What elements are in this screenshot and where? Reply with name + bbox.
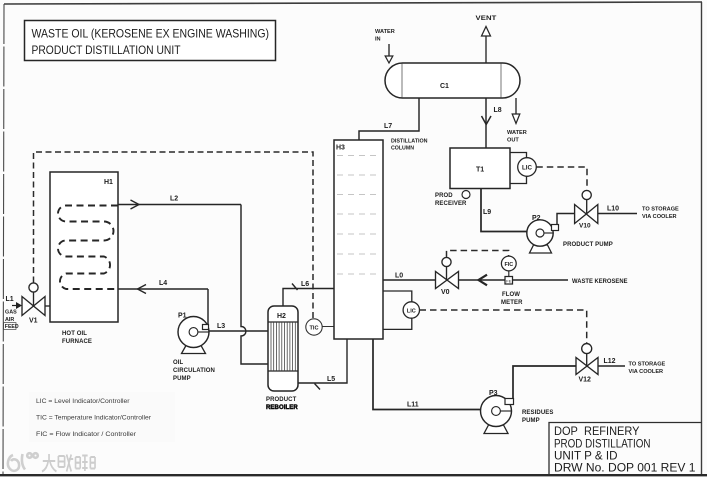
svg-text:OUT: OUT	[507, 138, 519, 144]
instrument FIC	[501, 256, 516, 276]
dashed LIC to V10	[536, 167, 587, 190]
valve V0 with actuator	[436, 257, 459, 288]
water out	[507, 98, 527, 144]
svg-text:V12: V12	[579, 377, 592, 384]
svg-text:GAS: GAS	[5, 310, 17, 316]
svg-text:LIC: LIC	[407, 308, 416, 314]
svg-text:RESIDUES: RESIDUES	[522, 410, 553, 416]
svg-text:TO STORAGE: TO STORAGE	[642, 207, 679, 213]
svg-text:L10: L10	[607, 206, 619, 213]
title block	[549, 423, 702, 476]
svg-text:L4: L4	[159, 280, 167, 287]
svg-text:L12: L12	[604, 358, 616, 365]
svg-text:FIC: FIC	[504, 262, 513, 268]
svg-text:FIC = Flow Indicator / Control: FIC = Flow Indicator / Controller	[36, 431, 137, 438]
svg-text:WASTE KEROSENE: WASTE KEROSENE	[572, 278, 628, 285]
svg-text:L11: L11	[407, 402, 419, 409]
svg-text:V10: V10	[579, 223, 591, 230]
line L6	[283, 284, 334, 307]
dashed control loop TIC to V1	[34, 152, 314, 319]
line L4	[118, 285, 208, 325]
line L10	[598, 213, 637, 215]
label product reboiler	[266, 397, 298, 411]
svg-text:L6: L6	[301, 281, 309, 288]
label prod receiver	[435, 191, 470, 208]
svg-text:VIA COOLER: VIA COOLER	[629, 369, 664, 375]
svg-text:AIR: AIR	[5, 317, 14, 323]
svg-text:L0: L0	[395, 273, 403, 280]
svg-text:PRODUCT: PRODUCT	[266, 397, 297, 403]
reboiler H2	[268, 306, 298, 391]
svg-text:P2: P2	[532, 215, 541, 222]
line L3	[209, 330, 268, 332]
svg-text:RECEIVER: RECEIVER	[435, 201, 467, 207]
instrument TIC	[306, 319, 334, 335]
dashed LIC to V12	[420, 310, 587, 343]
svg-text:METER: METER	[501, 300, 523, 306]
valve V1	[22, 283, 50, 316]
water in	[375, 29, 395, 63]
svg-text:L3: L3	[217, 323, 225, 330]
furnace H1	[50, 172, 118, 322]
svg-text:WATER: WATER	[507, 130, 527, 136]
svg-text:PRODUCT PUMP: PRODUCT PUMP	[563, 242, 613, 248]
svg-text:T1: T1	[476, 167, 484, 174]
svg-text:FLOW: FLOW	[502, 292, 520, 298]
vent	[476, 16, 497, 63]
valve V12 with actuator	[576, 344, 598, 375]
label oil circulation pump	[173, 360, 215, 382]
svg-text:REBOILER: REBOILER	[266, 405, 298, 411]
svg-text:CIRCULATION: CIRCULATION	[173, 368, 215, 374]
line L8	[482, 98, 492, 148]
legend background	[29, 392, 175, 442]
svg-text:H1: H1	[104, 179, 113, 186]
residue discharge line	[513, 366, 576, 399]
svg-text:L8: L8	[494, 107, 502, 114]
svg-text:COLUMN: COLUMN	[391, 146, 414, 152]
watermark	[8, 453, 38, 471]
svg-text:PRODUCT DISTILLATION UNIT: PRODUCT DISTILLATION UNIT	[32, 43, 181, 57]
svg-text:HOT OIL: HOT OIL	[62, 331, 87, 337]
line L0 waste kerosene feed	[383, 275, 568, 286]
svg-text:VENT: VENT	[476, 16, 497, 22]
svg-text:L2: L2	[170, 196, 178, 203]
svg-text:C1: C1	[440, 83, 449, 90]
svg-text:WATER: WATER	[375, 29, 395, 35]
line L11	[373, 339, 481, 410]
svg-text:FE: FE	[506, 279, 511, 284]
svg-text:LIC = Level Indicator/Controll: LIC = Level Indicator/Controller	[36, 398, 130, 405]
flow meter	[501, 277, 523, 307]
svg-text:L5: L5	[327, 376, 335, 383]
svg-text:P3: P3	[489, 390, 498, 397]
line L9	[481, 189, 527, 232]
svg-text:L9: L9	[483, 209, 491, 216]
svg-text:H2: H2	[277, 313, 286, 320]
furnace coil	[58, 206, 118, 290]
condenser C1	[385, 63, 520, 98]
title box	[25, 21, 276, 61]
svg-text:TIC: TIC	[309, 325, 318, 331]
dashed FIC to V0	[447, 251, 509, 258]
line L5	[298, 339, 347, 390]
pump P3	[481, 396, 514, 434]
svg-text:FURNACE: FURNACE	[62, 339, 92, 345]
label hot oil furnace	[62, 331, 92, 345]
line L12	[598, 365, 625, 367]
label to storage via cooler (bottom)	[629, 362, 666, 376]
svg-text:TO STORAGE: TO STORAGE	[629, 362, 666, 368]
label distillation column	[391, 139, 428, 152]
svg-text:PUMP: PUMP	[522, 418, 540, 424]
pump P1	[178, 317, 209, 354]
feed arrow L1	[4, 296, 38, 330]
svg-text:WASTE OIL (KEROSENE EX ENGINE: WASTE OIL (KEROSENE EX ENGINE WASHING)	[32, 27, 270, 41]
instrument LIC on T1	[510, 153, 536, 184]
svg-text:TIC = Temperature Indicator/Co: TIC = Temperature Indicator/Controller	[36, 415, 152, 422]
svg-text:PROD: PROD	[435, 193, 453, 199]
svg-text:L1: L1	[6, 296, 14, 303]
label to storage via cooler (top)	[642, 207, 679, 221]
svg-text:H3: H3	[336, 145, 345, 152]
line L2	[118, 200, 268, 364]
svg-text:IN: IN	[375, 37, 381, 43]
svg-text:PUMP: PUMP	[173, 376, 191, 382]
receiver T1	[450, 148, 510, 189]
svg-text:V1: V1	[29, 318, 38, 325]
svg-text:DRW No. DOP 001 REV 1: DRW No. DOP 001 REV 1	[554, 461, 696, 475]
instrument LIC on column	[383, 291, 419, 329]
legend text	[36, 398, 152, 438]
label residues pump	[522, 410, 553, 424]
pump P2 discharge pipe	[557, 214, 575, 225]
svg-text:P1: P1	[178, 313, 187, 320]
svg-text:OIL: OIL	[173, 360, 184, 366]
pump P2	[527, 220, 559, 253]
svg-text:LIC: LIC	[522, 165, 532, 172]
svg-text:V0: V0	[441, 289, 450, 296]
svg-text:FEED: FEED	[5, 324, 19, 330]
valve V10 with actuator	[575, 190, 598, 223]
svg-text:DISTILLATION: DISTILLATION	[391, 139, 428, 145]
line L7	[359, 98, 419, 140]
svg-text:L7: L7	[384, 123, 392, 130]
svg-text:VIA COOLER: VIA COOLER	[642, 214, 677, 220]
distillation column H3	[334, 140, 383, 339]
